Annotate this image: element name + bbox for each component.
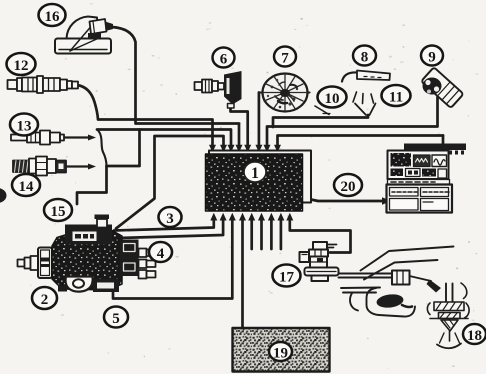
svg-text:9: 9: [428, 50, 436, 66]
arrowhead sensor 14 pointer: [88, 164, 96, 170]
vacuum pipes from valve 17: [339, 247, 454, 293]
svg-text:10: 10: [325, 91, 340, 107]
node 10 callout: [318, 87, 347, 108]
node 13 callout: [10, 114, 38, 136]
intake port top lines: [341, 288, 380, 293]
wire bus from brace to ECU (arrow x231): [97, 130, 231, 147]
svg-text:19: 19: [273, 346, 288, 362]
arrowhead pointer to panel 20: [382, 197, 391, 204]
sensor 13 (coolant temperature sensor): [11, 131, 64, 145]
svg-text:8: 8: [361, 50, 369, 66]
wire ECU bottom arrow4 down to box 19: [241, 219, 244, 329]
wire ECU bottom arrow3 to pump bottom: [113, 219, 232, 299]
node 16 callout: [39, 4, 66, 26]
pipe to injector line: [339, 274, 393, 278]
connector 9 (diagnostic plug): [421, 67, 463, 108]
svg-text:2: 2: [41, 292, 49, 308]
svg-text:20: 20: [341, 179, 356, 195]
pump small tab: [58, 286, 67, 292]
instrument panel 20: [387, 144, 467, 213]
funnel between 10 and 11 (wiring harness breakout): [315, 92, 376, 115]
node 14 callout: [12, 174, 40, 196]
ECU U1 outline rectangle: [209, 151, 311, 203]
sensor 16 (vehicle speed sensor on bracket): [55, 17, 113, 54]
svg-text:1: 1: [251, 165, 259, 182]
pump drive shaft: [18, 256, 39, 270]
ECU U1 dark body: [206, 154, 303, 211]
wire from sensor 12 to ECU (bus to arrow x212.5): [77, 85, 213, 146]
pump bottom mount lug: [66, 277, 93, 292]
wire ECU bottom stub 6: [260, 219, 263, 249]
scan artifact arc at left edge: [0, 188, 7, 203]
svg-text:13: 13: [17, 119, 32, 135]
solenoid valve 17 (EGR/boost control valve): [300, 242, 339, 281]
injector body hatched: [434, 302, 464, 311]
node 3 callout: [159, 207, 182, 227]
wire right bus to ECU (arrow x277.5): [278, 136, 444, 147]
pipe connector sleeve: [392, 271, 410, 285]
wire ECU bottom stub 5: [250, 219, 253, 249]
wire from item 7 down to ECU (arrow x258.9): [258, 93, 261, 147]
svg-text:16: 16: [45, 9, 61, 25]
port outline: [367, 288, 416, 317]
wire ECU bottom arrow1 to pump top: [114, 219, 214, 231]
svg-text:14: 14: [19, 179, 35, 195]
pipe dark end nib: [427, 280, 442, 293]
node 6 callout: [213, 48, 235, 68]
wire step from funnel 10/11: [273, 115, 368, 127]
panel top bar: [404, 144, 466, 151]
hose upper diagonal: [361, 247, 454, 271]
svg-text:15: 15: [51, 204, 66, 220]
wire stub from panel 20 top bar: [442, 136, 445, 144]
svg-text:6: 6: [220, 52, 228, 68]
wire ECU bottom arrow9 loop to valve 17: [290, 219, 351, 253]
svg-text:7: 7: [281, 51, 289, 67]
injector nozzle taper: [441, 320, 458, 331]
node 5 callout: [104, 307, 128, 328]
hose lower diagonal: [364, 260, 438, 280]
node 18 callout: [463, 324, 486, 344]
wire from pump top to ECU (arrow x223.5): [116, 136, 224, 229]
spray lines: [440, 333, 460, 343]
node 12 callout: [7, 53, 36, 75]
svg-text:5: 5: [112, 311, 120, 327]
pump delivery fittings: [139, 249, 156, 279]
node 2 callout: [32, 287, 57, 309]
pointer line sensor 13: [64, 136, 89, 138]
wire from sensor 16 to ECU (bus to arrow x239): [112, 27, 239, 146]
item 8 (shut-off lever / wand): [342, 71, 390, 82]
box 19 (relay/controller box): [233, 328, 330, 372]
pump bottom right foot: [93, 279, 119, 292]
wire arrow line to panel 20: [311, 200, 383, 202]
node 17 callout: [273, 265, 301, 287]
node 15 callout: [44, 199, 72, 221]
arrowhead sensor 13 pointer: [88, 135, 96, 141]
node 11 callout: [382, 85, 411, 106]
wire horizontal at y166 and vertical x139.5: [107, 130, 140, 167]
pointer line sensor 14: [66, 165, 89, 167]
sensor 6 (needle lift sensor with connector): [195, 71, 242, 108]
panel divider band: [388, 180, 450, 185]
svg-text:11: 11: [389, 90, 403, 106]
wire ECU bottom stub 7: [270, 219, 273, 249]
svg-text:12: 12: [14, 58, 29, 74]
injection pump (item 2): [18, 215, 156, 293]
pump mounting flange: [38, 248, 52, 279]
wire ECU bottom stub 8: [280, 219, 283, 249]
injector stem: [446, 284, 453, 303]
node 9 callout: [421, 46, 443, 66]
engine cross-section with injector (item 18): [341, 283, 469, 348]
pump primer cap: [95, 215, 110, 220]
node 20 callout: [334, 174, 362, 196]
pump top cover with label slot: [65, 225, 112, 245]
wire step down to item 15 area: [77, 166, 107, 204]
injector seal dark blob: [376, 293, 404, 309]
node 8 callout: [353, 46, 376, 66]
ECU bottom arrowheads (pointing up): [210, 213, 217, 221]
combustion chamber cup: [437, 344, 461, 349]
svg-text:3: 3: [166, 211, 174, 227]
node 4 callout: [149, 242, 172, 262]
wire diameter line through item 7: [259, 91, 310, 93]
wire from sensor 6 to ECU (arrow x247.7): [231, 108, 248, 146]
svg-text:17: 17: [279, 270, 295, 286]
wire ECU bottom arrow2 to pump top: [117, 219, 223, 238]
wire from connector 9 to ECU (arrow x264.5): [267, 97, 438, 146]
panel upper box: [388, 151, 449, 180]
sensor 12 (crankshaft position sensor): [8, 76, 79, 93]
panel lower box: [387, 185, 453, 213]
node 1 label on ECU: [244, 162, 266, 182]
pump main body (dark housing): [52, 231, 122, 291]
valve curves right: [461, 283, 467, 299]
brace curve joining sensors 13/14: [97, 130, 107, 167]
node 7 callout: [274, 47, 296, 67]
pump right distributor head: [120, 240, 139, 277]
ECU top arrowheads: [209, 145, 216, 153]
svg-text:4: 4: [157, 246, 165, 262]
item 7 (cold start device / timer disc): [263, 74, 308, 112]
node 19 callout: [269, 342, 292, 361]
sensor 14 (fuel temperature sensor): [13, 157, 66, 176]
svg-text:18: 18: [467, 328, 482, 344]
